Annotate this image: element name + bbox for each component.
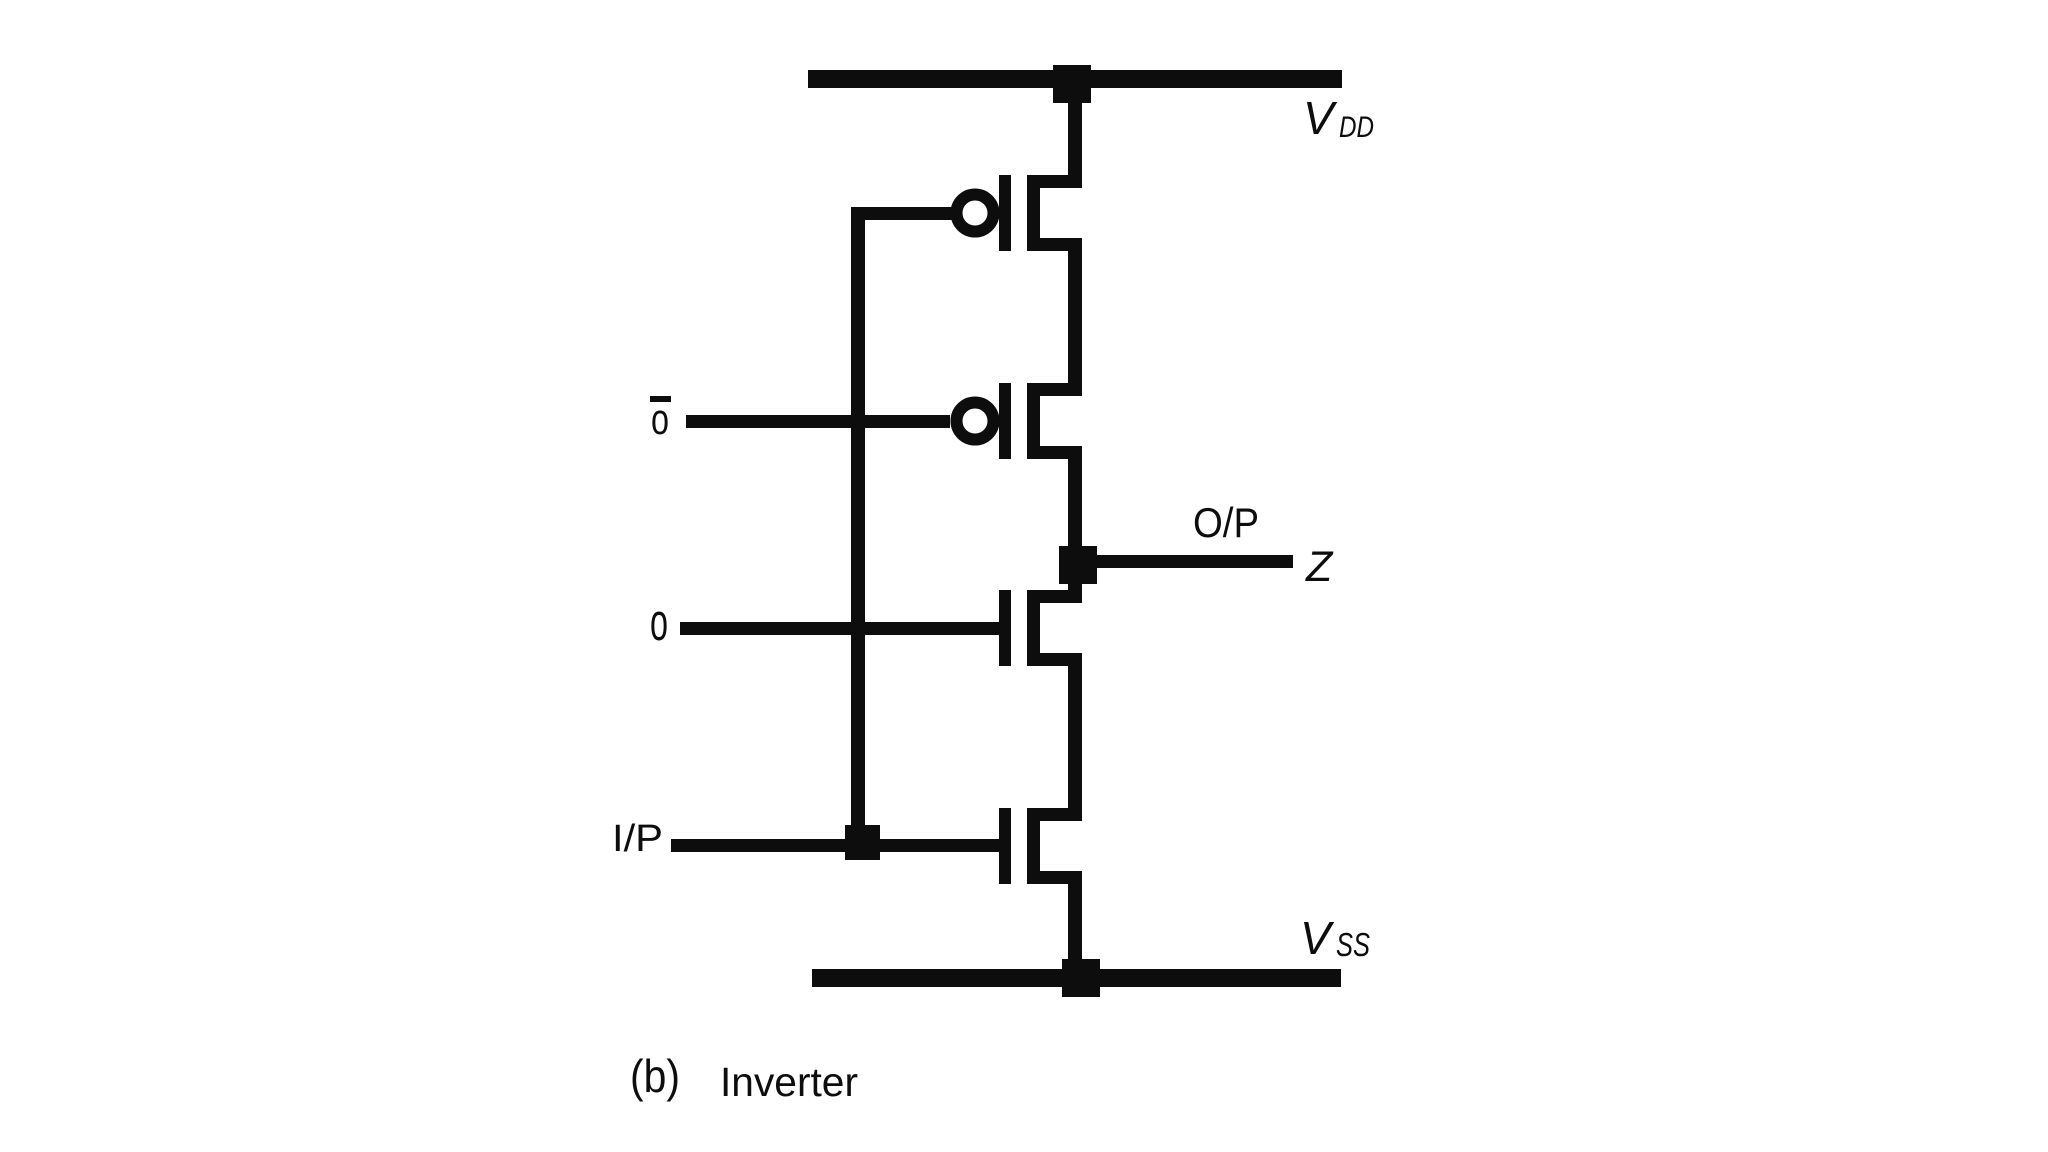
svg-text:I/P: I/P xyxy=(612,818,663,860)
wire: bus corner to Q1 gate bubble xyxy=(851,207,953,220)
node: VSS junction square xyxy=(1062,959,1100,997)
svg-text:o: o xyxy=(650,593,668,652)
svg-text:Inverter: Inverter xyxy=(720,1059,858,1105)
node: output junction square xyxy=(1059,546,1097,584)
wire: I/P input line to Q4 gate xyxy=(671,839,1003,852)
wire: output line to Z xyxy=(1096,555,1293,568)
label VDD xyxy=(1303,92,1374,144)
transistor Q4 (NMOS, gate I/P) xyxy=(999,808,1082,884)
wire: Q1 source to Q2 drain xyxy=(1068,238,1082,396)
transistor Q3 (NMOS, gate o) xyxy=(999,590,1082,666)
transistor Q1 (PMOS, gate from I/P bus) xyxy=(957,175,1083,251)
svg-text:O/P: O/P xyxy=(1193,499,1259,546)
label VSS xyxy=(1300,912,1370,964)
wire: Q3 source to Q4 drain xyxy=(1068,653,1082,821)
svg-text:(b): (b) xyxy=(630,1050,680,1102)
wire: I/P bus vertical riser xyxy=(851,207,865,852)
wire: o-bar input line to Q2 gate xyxy=(686,415,950,428)
svg-text:o: o xyxy=(651,395,669,444)
wire: output node down to Q3 drain xyxy=(1068,565,1082,603)
wire: Q2 source down to output node xyxy=(1068,446,1082,565)
VSS rail xyxy=(812,969,1341,987)
svg-text:DD: DD xyxy=(1339,111,1374,144)
VDD rail xyxy=(808,70,1342,88)
svg-text:SS: SS xyxy=(1336,926,1370,963)
svg-text:V: V xyxy=(1300,912,1335,964)
transistor Q2 (PMOS, gate o-bar) xyxy=(957,383,1083,459)
svg-text:V: V xyxy=(1303,92,1338,144)
node: I/P to bus junction square xyxy=(845,825,880,860)
wire: Q4 source down to VSS rail xyxy=(1068,871,1082,987)
node: VDD junction square xyxy=(1053,65,1091,103)
wire: o input line to Q3 gate xyxy=(680,622,1003,635)
wire: VDD node down to Q1 drain xyxy=(1068,79,1082,182)
label o-bar xyxy=(650,395,671,444)
svg-text:Z: Z xyxy=(1305,543,1334,591)
